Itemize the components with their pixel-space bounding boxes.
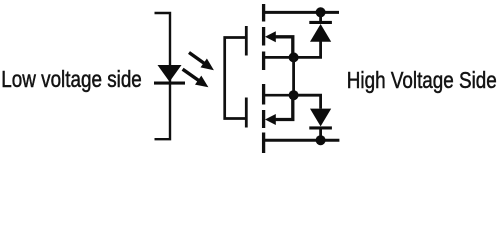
- MOSFET Q1 channel segments: [262, 4, 265, 70]
- MOSFET Q2 channel segments: [262, 84, 265, 153]
- light emission arrow (upper): [189, 53, 214, 71]
- wire: photodiode/gate-drive bracket joining both MOSFET gates: [225, 38, 246, 119]
- wire: input-side leads (top and bottom terminals with vertical wire): [155, 13, 171, 139]
- MOSFET Q1 (top, N-channel) gate electrode: [245, 26, 248, 56]
- wire: bottom rail (Q2 drain to output terminal): [264, 139, 340, 142]
- svg-text:Low voltage side: Low voltage side: [1, 66, 142, 92]
- MOSFET Q2 (bottom, N-channel) gate electrode: [245, 98, 248, 128]
- wire: top rail (Q1 drain to output terminal): [264, 11, 339, 14]
- light emission arrow (lower): [183, 69, 209, 87]
- MOSFET Q1 body arrow (points to channel): [265, 31, 293, 57]
- svg-text:High Voltage Side: High Voltage Side: [347, 67, 497, 93]
- body diode D3 (bottom, cathode down): [294, 95, 332, 140]
- MOSFET Q1 source lead: [264, 56, 294, 59]
- MOSFET Q2 source lead: [264, 94, 294, 97]
- wire: common source link (Q1 source to Q2 source): [292, 57, 295, 95]
- LED D1 (input emitter diode, cathode down): [154, 65, 185, 85]
- junction dot: Q2 source node: [289, 90, 299, 100]
- junction dot: bottom rail / D3 cathode: [316, 135, 326, 145]
- junction dot: Q1 source node: [289, 52, 299, 62]
- junction dot: top rail / D2 cathode: [316, 7, 326, 17]
- body diode D2 (top, cathode up): [294, 12, 332, 57]
- MOSFET Q2 body arrow (points to channel): [265, 96, 293, 125]
